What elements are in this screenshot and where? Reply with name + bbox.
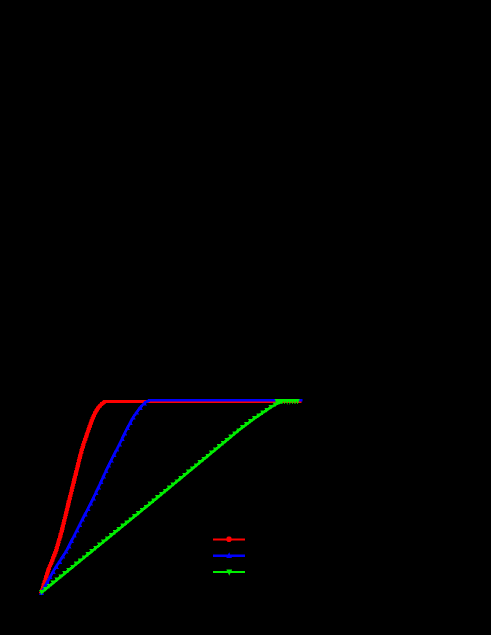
legend green entry	[213, 570, 245, 576]
red circle markers	[39, 400, 106, 595]
red curve line (rise)	[42, 401, 107, 592]
green plateau comb of triangle-down markers	[275, 399, 300, 404]
legend blue entry	[213, 552, 245, 558]
red curve plateau	[105, 400, 302, 403]
blue triangle markers	[39, 401, 147, 595]
blue curve plateau	[148, 399, 302, 401]
green triangle-down markers on diagonal	[39, 400, 282, 595]
legend red entry	[213, 536, 245, 542]
blue curve line (rise)	[42, 401, 150, 593]
green curve line (diagonal)	[42, 402, 283, 593]
